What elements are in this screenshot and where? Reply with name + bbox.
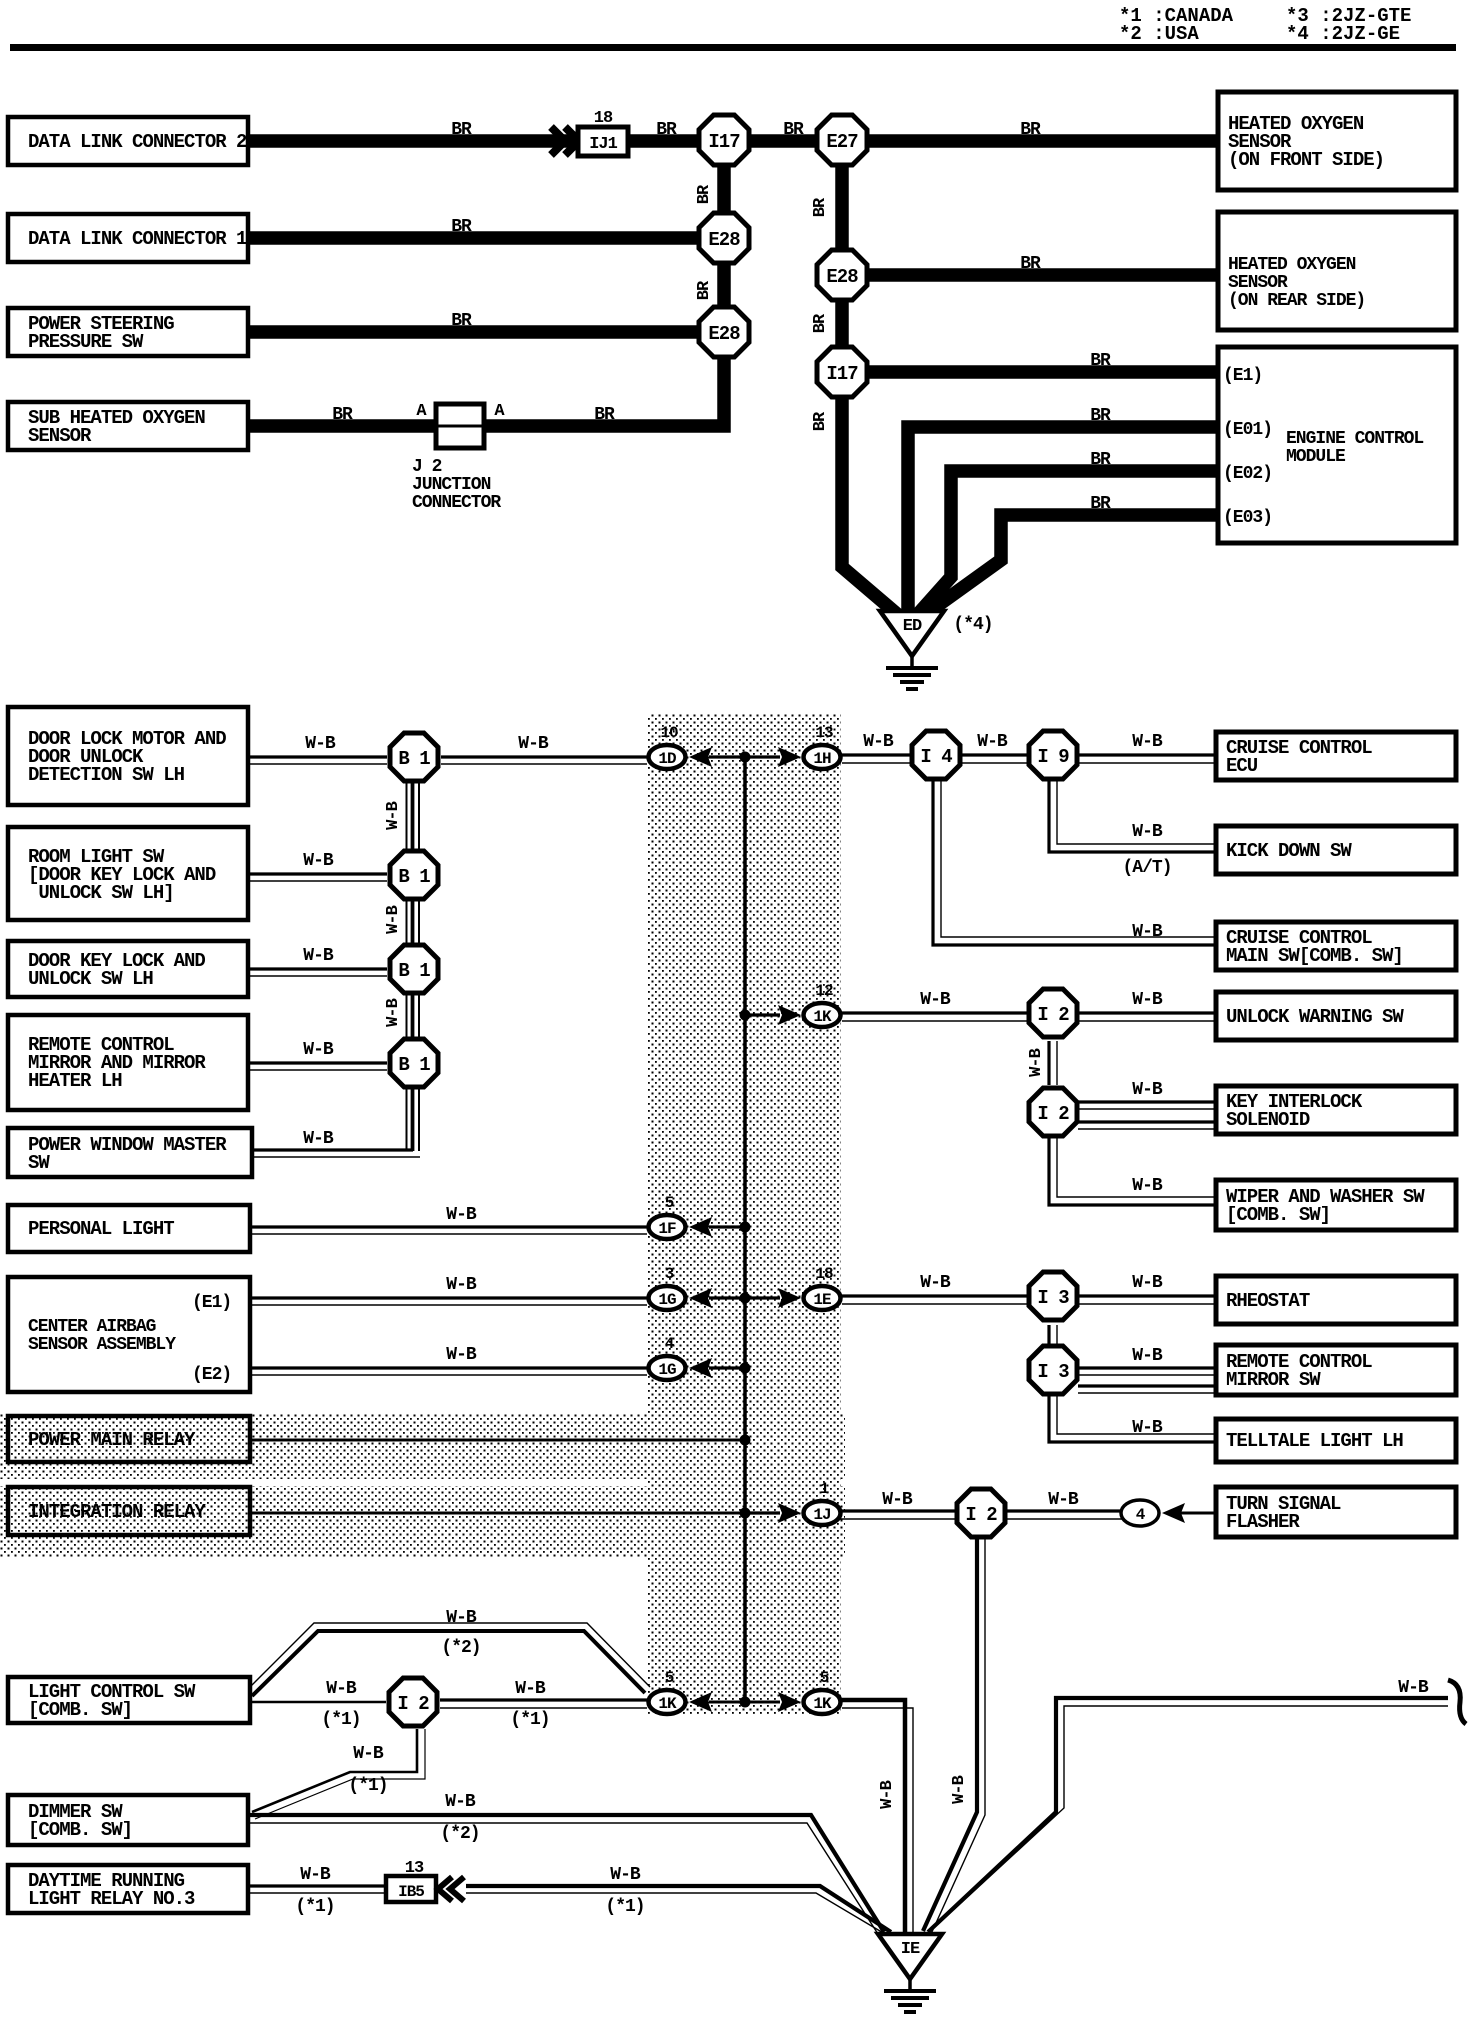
wire W-B 1K to I2 [842,1013,1028,1021]
label W-B daytime left [300,1865,331,1885]
svg-text:BR: BR [1090,351,1111,371]
svg-text:I 3: I 3 [1037,1361,1069,1383]
box HEATED OXYGEN SENSOR FRONT [1218,92,1456,190]
svg-text:W-B: W-B [300,1865,331,1885]
connector I3 (remote mirror) [1029,1346,1077,1394]
svg-text:BR: BR [1020,254,1041,274]
label (*1) i2-dimmer [348,1776,387,1796]
junction dot central y1015 [740,1010,751,1021]
svg-text:B 1: B 1 [398,1054,430,1076]
wire W-B integration relay to center [250,1512,745,1515]
label W-B row2 1k-i2 [920,990,951,1010]
label W-B remote mirror [1132,1346,1163,1366]
label W-B telltale [1132,1418,1163,1438]
svg-text:(ON REAR SIDE): (ON REAR SIDE) [1228,291,1365,311]
junction dot central y1298 [740,1293,751,1304]
svg-text:I 2: I 2 [1037,1103,1069,1125]
svg-text:BR: BR [783,120,804,140]
svg-text:TELLTALE LIGHT LH: TELLTALE LIGHT LH [1226,1430,1403,1452]
svg-text:1K: 1K [813,1695,832,1713]
label (*4) [953,615,992,635]
label W-B i2 chain [1027,1048,1046,1076]
svg-text:4: 4 [1136,1506,1146,1524]
junction dot central y1368 [740,1363,751,1374]
wire W-B I9 to cruise control ecu [1078,755,1216,763]
svg-text:[COMB. SW]: [COMB. SW] [1226,1204,1330,1226]
svg-text:W-B: W-B [303,1040,334,1060]
svg-text:1E: 1E [813,1291,831,1309]
box POWER MAIN RELAY [8,1416,250,1462]
svg-text:1G: 1G [658,1361,676,1379]
label BR psps [451,311,472,331]
svg-text:(*1): (*1) [605,1897,644,1917]
wire W-B center to 1K [745,1013,780,1016]
svg-text:HEATED OXYGEN: HEATED OXYGEN [1228,255,1356,275]
svg-text:W-B: W-B [326,1679,357,1699]
svg-text:1D: 1D [658,750,676,768]
svg-text:B 1: B 1 [398,866,430,888]
svg-text:J 2: J 2 [412,457,442,477]
box HEATED OXYGEN SENSOR REAR [1218,212,1456,330]
svg-text:E28: E28 [708,323,740,345]
svg-text:DATA LINK CONNECTOR 2: DATA LINK CONNECTOR 2 [28,131,247,153]
wire W-B center to 1H [745,755,780,758]
svg-text:[COMB. SW]: [COMB. SW] [28,1819,132,1841]
wire W-B I2 down to ground IE [923,1536,985,1934]
label (*1) light control left [321,1710,360,1730]
svg-text:SOLENOID: SOLENOID [1226,1109,1310,1131]
label W-B rheostat 1e-i3 [920,1273,951,1293]
svg-text:W-B: W-B [303,1129,334,1149]
wire BR SUB HEATED OXYGEN SENSOR to J2 [248,419,440,433]
svg-text:W-B: W-B [920,1273,951,1293]
box RHEOSTAT [1216,1276,1456,1324]
label W-B b1 chain 1 [384,801,403,829]
svg-text:W-B: W-B [1398,1678,1429,1698]
label W-B kick down [1132,822,1163,842]
svg-text:PERSONAL LIGHT: PERSONAL LIGHT [28,1218,174,1240]
svg-text:B 1: B 1 [398,748,430,770]
svg-text:W-B: W-B [353,1744,384,1764]
wire BR DATA LINK CONNECTOR 2 to IJ1 [248,134,578,148]
connector B1 (door lock motor) [390,733,438,781]
box DOOR KEY LOCK AND UNLOCK SW LH [8,941,248,997]
connector 1D pin 10 [649,724,686,769]
svg-text:W-B: W-B [1132,1176,1163,1196]
label W-B daytime right [610,1865,641,1885]
box POWER WINDOW MASTER SW [8,1128,252,1177]
svg-text:W-B: W-B [384,998,403,1026]
svg-text:W-B: W-B [384,801,403,829]
wire W-B I2 down to wiper washer sw [1049,1135,1216,1205]
wire W-B room light sw to B1 [248,874,387,881]
label W-B key interlock [1132,1080,1163,1100]
svg-text:W-B: W-B [446,1275,477,1295]
wire W-B I3 to rheostat [1078,1296,1216,1304]
label BR vertical i17-gnd [811,411,830,431]
label W-B b1 chain 2 [384,905,403,933]
label BR e02 [1090,450,1111,470]
svg-text:(E01): (E01) [1223,420,1272,440]
wire W-B I2 to 1K [440,1700,647,1708]
connector B1 (room light sw) [390,851,438,899]
svg-text:SENSOR: SENSOR [28,425,92,447]
label BR j2-corner [594,405,615,425]
ground IE [878,1934,942,2012]
connector E28 (data link) [699,213,749,263]
wire W-B light control sw *2 diagonal [250,1623,650,1696]
connector E27 [817,115,867,165]
box DOOR LOCK MOTOR AND DOOR UNLOCK DETECTION SW LH [8,707,248,805]
svg-text:SW: SW [28,1152,50,1174]
svg-text:(E1): (E1) [192,1293,231,1313]
wire W-B 1G to center E2 [709,1366,745,1369]
box WIPER AND WASHER SW [1216,1180,1456,1230]
wire W-B I2 to I2 vertical [1049,1041,1057,1085]
arrow into 1D [689,747,712,767]
wire W-B IB5 to ground IE [466,1886,891,1934]
svg-text:W-B: W-B [518,734,549,754]
connector 1K pin 5 right [804,1669,841,1714]
svg-text:W-B: W-B [1132,1418,1163,1438]
svg-text:ECU: ECU [1226,755,1258,777]
svg-text:MIRROR SW: MIRROR SW [1226,1369,1321,1391]
svg-text:W-B: W-B [305,734,336,754]
box KICK DOWN SW [1216,826,1456,874]
svg-text:W-B: W-B [1132,1346,1163,1366]
svg-text:ED: ED [903,617,922,636]
svg-text:(E02): (E02) [1223,464,1272,484]
svg-text:W-B: W-B [446,1345,477,1365]
svg-text:BR: BR [594,405,615,425]
arrow chevron into IJ1 [551,127,579,155]
svg-text:MODULE: MODULE [1286,447,1346,467]
wire BR E27 to heated oxygen sensor front [866,134,1218,148]
svg-text:W-B: W-B [950,1775,969,1803]
label W-B light control right [515,1679,546,1699]
label BR dlc1 [451,217,472,237]
arrow into 1K row2 [778,1005,801,1025]
arrow into 1G E1 [689,1288,712,1308]
svg-text:I 3: I 3 [1037,1287,1069,1309]
svg-text:W-B: W-B [303,946,334,966]
label W-B row1 ecu [1132,732,1163,752]
svg-text:W-B: W-B [515,1679,546,1699]
box CRUISE CONTROL ECU [1216,732,1456,780]
svg-text:*2 :USA: *2 :USA [1119,23,1199,45]
junction dot central y1440 [740,1435,751,1446]
wire W-B 1F to center [709,1225,745,1228]
arrow into 1J [778,1503,801,1523]
svg-text:BR: BR [811,313,830,333]
wire W-B B1 to 1D [441,757,647,764]
connector I4 [912,731,960,779]
svg-text:W-B: W-B [446,1608,477,1628]
connector 1G pin 4 [649,1335,686,1380]
label W-B row2 left [303,851,334,871]
arrow into 1E [778,1288,801,1308]
svg-text:5: 5 [665,1194,674,1212]
wire BR ECM E03 to ground ED [926,515,1218,614]
svg-text:W-B: W-B [1132,990,1163,1010]
svg-text:BR: BR [695,184,714,204]
svg-text:*4 :2JZ-GE: *4 :2JZ-GE [1286,23,1400,45]
wire BR POWER STEERING PRESSURE SW to E28 [248,325,704,339]
svg-text:(*2): (*2) [440,1824,479,1844]
svg-text:CONNECTOR: CONNECTOR [412,493,501,513]
svg-text:1J: 1J [813,1506,830,1524]
svg-text:12: 12 [815,982,833,1000]
svg-text:18: 18 [815,1265,833,1283]
wire W-B I3 to remote mirror sw a [1078,1368,1216,1375]
svg-text:BR: BR [811,197,830,217]
svg-text:I 2: I 2 [965,1504,997,1526]
svg-text:IB5: IB5 [398,1883,424,1901]
svg-text:E27: E27 [826,131,858,153]
svg-text:FLASHER: FLASHER [1226,1511,1300,1533]
label (*2) light control [441,1638,480,1658]
svg-text:W-B: W-B [384,905,403,933]
svg-text:(ON FRONT SIDE): (ON FRONT SIDE) [1228,149,1384,171]
label W-B light control left [326,1679,357,1699]
svg-text:UNLOCK SW LH: UNLOCK SW LH [28,968,153,990]
wire W-B power window master sw [252,1150,420,1157]
label W-B wiper [1132,1176,1163,1196]
svg-text:(*2): (*2) [441,1638,480,1658]
wire W-B B1 chain 1-2 [407,782,420,851]
junction dot central y1702 [740,1697,751,1708]
connector I2 (turn signal) [957,1489,1005,1537]
wire W-B B1 chain 2-3 [407,899,420,945]
svg-text:UNLOCK SW LH]: UNLOCK SW LH] [28,882,174,904]
connector 1K pin 5 left [649,1669,686,1714]
svg-text:IJ1: IJ1 [589,135,617,154]
wire W-B I4 to I9 [961,755,1028,763]
connector E28 (power steering) [699,307,749,357]
connector I17 (ECM) [817,347,867,397]
box DAYTIME RUNNING LIGHT RELAY NO.3 [8,1865,248,1913]
label (A/T) kick down [1122,858,1171,878]
label W-B row1 i4-i9 [977,732,1008,752]
svg-text:BR: BR [1090,450,1111,470]
box PERSONAL LIGHT [8,1205,250,1252]
label BR i17-e27 [783,120,804,140]
connector I9 [1029,731,1077,779]
svg-text:(E2): (E2) [192,1365,231,1385]
connector I3 (rheostat) [1029,1272,1077,1320]
wire BR E28 to E28 vertical [717,255,731,315]
svg-text:JUNCTION: JUNCTION [412,475,491,495]
svg-text:MAIN SW[COMB. SW]: MAIN SW[COMB. SW] [1226,945,1403,967]
wire BR E27 down to E28 rear [835,148,849,258]
label BR shos [332,405,353,425]
wire W-B I3 to I3 vertical [1049,1325,1057,1345]
label W-B light *2 [446,1608,477,1628]
shade band integration relay row [0,1486,845,1558]
wire BR I17 down to ground ED [842,389,897,614]
label BR vertical e28-e28 [695,280,714,300]
svg-text:INTEGRATION RELAY: INTEGRATION RELAY [28,1501,206,1523]
wire W-B remote mirror heater to B1 [248,1063,387,1070]
svg-text:13: 13 [405,1859,424,1878]
svg-text:W-B: W-B [878,1780,897,1808]
svg-text:W-B: W-B [977,732,1008,752]
svg-text:BR: BR [1020,120,1041,140]
svg-text:SENSOR ASSEMBLY: SENSOR ASSEMBLY [28,1335,176,1355]
box CENTER AIRBAG SENSOR ASSEMBLY [8,1277,250,1392]
wire W-B 1K to center bottom [709,1701,745,1704]
label W-B row2 unlock [1132,990,1163,1010]
wire W-B 1H to I4 [842,755,911,763]
svg-text:BR: BR [451,120,472,140]
svg-text:W-B: W-B [610,1865,641,1885]
wire W-B arrow to turn signal flasher [1181,1512,1216,1515]
wire BR E28 to heated oxygen sensor rear [866,268,1218,282]
svg-text:KICK DOWN SW: KICK DOWN SW [1226,840,1352,862]
svg-text:(E1): (E1) [1223,366,1262,386]
wire BR J2 to corner below E28 [480,349,724,426]
box REMOTE CONTROL MIRROR AND MIRROR HEATER LH [8,1015,248,1110]
arrow from turn signal flasher [1162,1503,1185,1523]
svg-text:W-B: W-B [303,851,334,871]
wire BR ECM E01 to ground ED [908,427,1218,614]
svg-text:W-B: W-B [920,990,951,1010]
label BR vertical e28-i17 [811,313,830,333]
shade band power main relay row [0,1413,845,1479]
box ROOM LIGHT SW [8,827,248,920]
wire W-B center to 1J [745,1511,780,1514]
svg-text:3: 3 [665,1265,674,1283]
box TURN SIGNAL FLASHER [1216,1487,1456,1537]
label (*1) light control right [510,1710,549,1730]
wire W-B I4 down to cruise control main sw [933,780,1216,945]
box SUB HEATED OXYGEN SENSOR [8,402,248,450]
wire W-B airbag E1 to 1G [250,1298,647,1305]
label W-B row1 1h-i4 [863,732,894,752]
label BR e27-sensor [1020,120,1041,140]
wire W-B personal light to 1F [250,1227,647,1234]
wire W-B center to 1E [745,1296,780,1299]
wire BR IJ1 to I17 [628,134,700,148]
svg-text:E28: E28 [708,229,740,251]
label W-B right edge [1398,1678,1429,1698]
connector I17 [699,115,749,165]
svg-text:W-B: W-B [445,1792,476,1812]
wire W-B I3 down to telltale light [1049,1395,1216,1442]
connector 4 oval turn signal flasher [1121,1500,1159,1526]
label (*1) daytime left [295,1897,334,1917]
wire W-B I2 to flasher oval [1006,1511,1122,1519]
svg-text:BR: BR [451,311,472,331]
svg-text:W-B: W-B [1132,1273,1163,1293]
svg-text:(*1): (*1) [510,1710,549,1730]
label W-B row1 b1-1d [518,734,549,754]
wire BR I17 to ECM E1 [866,365,1218,379]
svg-text:W-B: W-B [1027,1048,1046,1076]
svg-text:W-B: W-B [1132,922,1163,942]
continuation curl right edge [1448,1680,1466,1724]
svg-text:13: 13 [815,724,833,742]
label W-B airbag e1 [446,1275,477,1295]
svg-text:DETECTION SW LH: DETECTION SW LH [28,764,185,786]
svg-text:I17: I17 [826,363,858,385]
wire W-B right 1K down to ground IE [842,1700,913,1934]
label BR e03 [1090,494,1111,514]
wire W-B B1 chain 4 down to power window sw [407,1087,420,1151]
svg-text:(*4): (*4) [953,615,992,635]
arrow chevron into IB5 [438,1877,464,1901]
arrow into right 1K [778,1692,801,1712]
label W-B row5 left [303,1129,334,1149]
svg-text:W-B: W-B [1132,1080,1163,1100]
svg-text:[COMB. SW]: [COMB. SW] [28,1699,132,1721]
label W-B 1k vertical [878,1780,897,1808]
svg-text:W-B: W-B [882,1490,913,1510]
svg-text:BR: BR [1090,494,1111,514]
wire W-B I2 to unlock warning sw [1078,1013,1216,1021]
wire BR I17 to E27 [748,134,818,148]
label (*1) daytime right [605,1897,644,1917]
svg-text:W-B: W-B [1132,732,1163,752]
svg-text:POWER MAIN RELAY: POWER MAIN RELAY [28,1429,196,1451]
svg-text:5: 5 [665,1669,674,1687]
wire W-B light control sw to I2 [248,1701,386,1704]
svg-text:5: 5 [820,1669,829,1687]
wire W-B B1 chain 3-4 [407,993,420,1039]
svg-text:PRESSURE SW: PRESSURE SW [28,331,144,353]
svg-text:B 1: B 1 [398,960,430,982]
wire BR E28 down to I17 [835,292,849,354]
connector E28 (rear sensor) [817,250,867,300]
svg-text:SENSOR: SENSOR [1228,273,1288,293]
svg-text:18: 18 [594,109,613,128]
svg-text:(E03): (E03) [1223,508,1272,528]
svg-text:I 4: I 4 [920,746,952,768]
box DIMMER SW [8,1795,248,1845]
box TELLTALE LIGHT LH [1216,1419,1456,1462]
label W-B row4 left [303,1040,334,1060]
svg-text:I 2: I 2 [1037,1004,1069,1026]
wire W-B 1E to I3 [842,1296,1028,1304]
svg-text:LIGHT RELAY NO.3: LIGHT RELAY NO.3 [28,1888,195,1910]
svg-text:1: 1 [820,1480,829,1498]
label W-B row1 left [305,734,336,754]
svg-text:BR: BR [811,411,830,431]
label W-B rheostat [1132,1273,1163,1293]
label W-B personal light [446,1205,477,1225]
svg-text:POWER WINDOW MASTER: POWER WINDOW MASTER [28,1134,227,1156]
svg-text:DATA LINK CONNECTOR 1: DATA LINK CONNECTOR 1 [28,228,247,250]
wire W-B power main relay to center [250,1439,745,1442]
junction connector J2 [412,402,505,513]
connector I2 (key interlock) [1029,1088,1077,1136]
wire W-B 1D to center [709,755,745,758]
label W-B i2-flasher [1048,1490,1079,1510]
arrow into 1K bottom left [689,1692,712,1712]
label W-B dimmer *2 [445,1792,476,1812]
svg-text:HEATER LH: HEATER LH [28,1070,122,1092]
svg-text:W-B: W-B [1132,822,1163,842]
arrow into 1F [689,1217,712,1237]
junction dot central y757 [740,752,751,763]
wire W-B door lock motor to B1 [248,757,387,764]
connector 1J pin 1 [804,1480,841,1525]
label W-B 1j-i2 [882,1490,913,1510]
wire W-B I2 to key interlock solenoid a [1078,1102,1216,1109]
wire W-B central harness vertical [743,757,747,1702]
arrow into 1G E2 [689,1358,712,1378]
connector 1K pin 12 [804,982,841,1027]
